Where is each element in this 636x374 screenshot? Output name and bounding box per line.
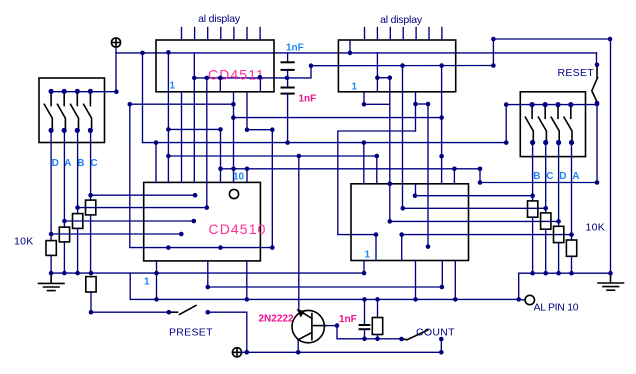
wire: x363.8 pin drop to U4 top [363,143,365,184]
wire: base to cap node [326,325,337,327]
wire: U2 pin x415.5 down, jog [415,92,417,131]
resistor R6 [541,213,551,229]
wire: U1 pin x168.4 long drop [167,52,169,182]
wire: x220.5 drop [220,129,222,182]
wire: U4 pin x415.5 to y299.4 [415,261,417,300]
wire: y129.7 short [247,129,272,131]
wire: x389.8 long drop into U4 [389,78,391,222]
svg-text:RESET: RESET [558,67,595,79]
ground GND1 [39,273,65,291]
wire: jog x130.2 to y299.4 [130,273,156,299]
svg-text:PRESET: PRESET [169,327,213,339]
wire: x194.3 drop [193,53,195,182]
wire: emitter down [297,340,299,352]
wire: x247 pin into U3 top [246,169,248,183]
wire: corner x480 to y182.5 [480,169,597,183]
wire: x156 pin drop to U3 [155,143,157,183]
svg-text:al display: al display [380,14,423,26]
wire: U1 pin x233.5 drop [233,92,235,183]
U4 interior pins [415,184,417,196]
IC CD4511 U1 box [156,40,274,92]
wire: y66 from corner x311 to x493 [311,65,493,67]
wires: S2 outputs down to right resistor tops [532,143,534,201]
svg-text:CD4510: CD4510 [209,221,267,237]
wire: + stem down to DIP1 rail [115,47,117,91]
wire: vertical x142.5 from Vdd bus to y142.6 corner [142,53,144,143]
wire: x246.8 down to +rail [246,312,248,352]
svg-text:1nF: 1nF [286,43,304,54]
wire: RESET bottom to y182.5 [596,103,598,183]
wire: U2 pin x364 to y104 jog right [364,92,390,105]
svg-text:B: B [77,158,84,169]
resistor R2 [59,227,69,242]
pin 10 circle [229,189,238,198]
wire: y131 jog to x337.8 down to y234.6 [338,131,416,235]
wire: x206.8 drop into U3 [206,78,208,208]
resistor R4 [86,200,96,215]
svg-text:D: D [52,158,59,169]
wire: y117.6 [233,117,441,119]
svg-text:C: C [90,158,97,169]
power terminal + (bottom) [232,348,241,357]
DIP switch block S2 (right) [520,92,585,157]
capacitor C1 1nF [281,53,295,88]
terminal AL PIN 10 [519,298,526,301]
DIP switch block S1 (left) [39,78,105,143]
U4 interior stubs at y234.6 [375,235,377,261]
wire: U2 stub x350 [349,40,351,53]
wire: U1 pin x260.4 stub [259,77,261,92]
svg-text:B: B [533,171,540,182]
switch S1-d [84,94,92,129]
wire: y129.4 [168,128,220,130]
U2 top pins [365,28,442,41]
wire: vertical x129.8 down to y247 corner, then right [130,104,272,247]
wires: staircase to CD4510 U3 left pins [91,194,196,196]
resistor R7 [554,226,564,242]
svg-text:1: 1 [365,250,371,261]
switch S2-c [551,107,559,141]
wires: S1 outputs down to resistor tops [50,130,52,240]
wire: U1 stub x220.3 [219,78,221,92]
wire: long y142.6 bus [143,142,507,144]
capacitor C2 1nF [281,88,295,143]
wire: x376.8 pin drop to U4 top [376,156,378,184]
wire: y77.7 short (U2) [377,77,389,79]
svg-text:D: D [559,171,566,182]
wire: x506.2 drop to y142.6 [505,105,507,143]
svg-text:al display: al display [198,13,241,25]
switch S1-c [71,94,79,129]
resistor R9 (preset pull) [86,277,96,292]
svg-text:1: 1 [170,81,176,92]
wire: U3 pin x207.8 down to y287 [207,261,209,287]
wire: bottom +rail y352.3 [242,351,441,353]
wire: U3 pin x156.5 down [156,261,158,300]
wire: y299.4 [157,298,519,300]
resistor R10 [377,299,379,317]
wire: right bus corner x518.7 [519,273,611,299]
svg-text:CD4511: CD4511 [208,66,265,82]
resistor R8 [566,240,576,256]
wire: main Vdd bus y53 from + to RESET corner [116,52,597,54]
switch S2-b [538,107,546,141]
wire: y104 left [130,103,234,105]
wire: U4 pin x442.3 to y287 [441,261,443,288]
svg-text:C: C [546,171,553,182]
switch S2-d [564,107,572,141]
S2 rail y104.6 [506,104,597,106]
S1 rail y92 [51,91,117,93]
resistor R1 10K [46,241,56,256]
wire: y169 long [221,168,481,170]
wire: top bridge y39 [493,38,610,40]
IC CD4511 U2 box [338,40,455,92]
svg-text:1: 1 [144,277,150,288]
IC CD4510 U3 box [144,182,261,261]
wire: U4 pin x455.3 to y299.4 [454,261,456,300]
svg-text:1: 1 [352,82,358,93]
wire: jog x311 y66 down to y78 [287,66,311,78]
wire: x428 drop into U4 [427,104,429,247]
wire: COUNT right contact down to +rail [440,339,442,352]
resistor R5 10K [528,201,538,217]
svg-text:10K: 10K [586,222,606,234]
wire: x454.4 pin to U4 top [453,169,455,184]
wire: vertical x493 joining y39 to y66 [492,39,494,66]
wire: y104 jog x415.5 to x428 [416,103,429,105]
switch S2-a [525,107,533,141]
wire: y78 inside CD4511 U1 to cap node [194,77,287,79]
power terminal + (top left) [111,38,120,47]
resistor R3 [73,214,83,229]
svg-text:1nF: 1nF [339,314,357,325]
wire: x272.3 drop to y247 [271,130,273,248]
switch S1-b [57,94,65,129]
wire: y287 [208,286,442,288]
svg-text:A: A [64,158,71,169]
wire: x441.6 long drop from y66 to U4 top [441,66,443,184]
IC CD4510 U4 box [351,184,469,261]
svg-text:10K: 10K [14,236,34,248]
svg-text:10: 10 [233,172,245,183]
wire: collector drop x298.8 [298,156,300,310]
U4 right pin wires to right resistors [415,195,533,197]
wire: U1 pin x247 stub to y129.7 [246,92,248,130]
svg-text:AL PIN 10: AL PIN 10 [534,302,579,314]
ground GND2 [598,273,624,290]
wire: y156 [168,155,376,157]
wire: far right vertical x610.5 [610,39,612,273]
wire: left ground bus y273.2 [51,272,364,274]
svg-text:1nF: 1nF [299,94,317,105]
wire: U2 interior x377.4 [376,53,378,92]
wire: U1 pin x181.5 long drop [181,92,183,183]
wire: U4 pin x364 to ground bus [363,261,365,274]
svg-text:A: A [572,171,579,182]
svg-text:2N2222: 2N2222 [259,313,294,324]
U1 top pins [182,28,261,41]
switch S1-a [44,94,52,129]
wire: U3 pin x246.8 down to y299.4 [246,261,248,300]
